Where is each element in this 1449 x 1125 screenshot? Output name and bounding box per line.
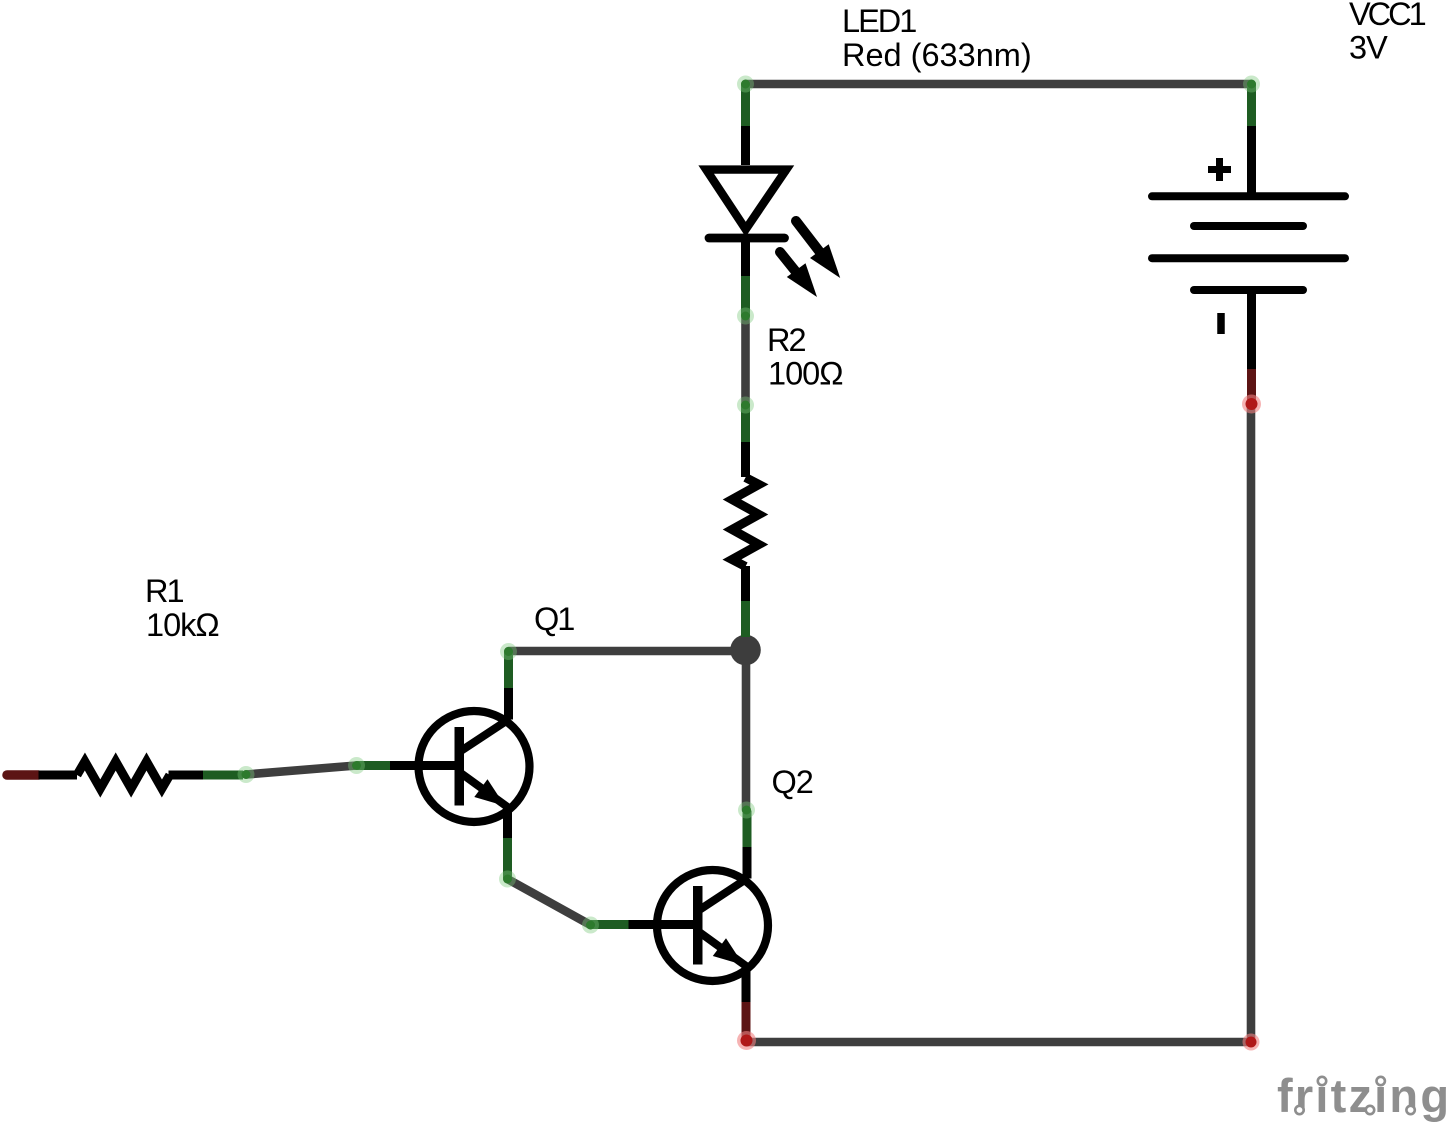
Q2 collector pin — [743, 811, 752, 848]
VCC1 plate 4 short — [1194, 286, 1303, 294]
R1 right pin — [203, 771, 243, 780]
R1 pin glow right — [238, 766, 255, 783]
Q1 base lead — [390, 761, 459, 770]
VCC1 plate 1 long — [1152, 192, 1345, 200]
LED1 light arrow 2 — [780, 252, 803, 280]
VCC1 minus sign (rotated bar) — [1217, 313, 1225, 334]
battery VCC1 — [1152, 76, 1345, 414]
R1 left pin (unconnected, red) — [7, 770, 39, 780]
VCC1 plate 3 long — [1152, 254, 1345, 262]
Q1 emitter lead — [503, 807, 512, 838]
bottom corner red dot — [1243, 1034, 1260, 1051]
label Q1 — [534, 601, 574, 637]
svg-text:Red (633nm): Red (633nm) — [842, 37, 1032, 73]
Q1 circle — [419, 711, 530, 822]
svg-text:R2: R2 — [767, 322, 805, 358]
svg-text:10kΩ: 10kΩ — [146, 607, 219, 643]
label R2 — [767, 322, 843, 392]
Q2 base pin — [591, 920, 629, 929]
Q1 emitter pin — [503, 838, 512, 878]
LED1 pin glow bottom — [737, 308, 754, 325]
Q1 collector pin — [504, 652, 513, 689]
Q2 emitter pin (red) — [742, 1002, 751, 1037]
wire: LED1 cathode to R2 top — [741, 316, 750, 404]
wire: VCC1 minus down to bottom wire — [1247, 406, 1256, 1042]
VCC1 minus red dot — [1242, 395, 1261, 414]
LED1 cathode lead — [741, 238, 750, 276]
svg-text:LED1: LED1 — [842, 3, 916, 39]
R1 zigzag — [77, 762, 170, 789]
VCC1 plus pin glow — [1243, 76, 1260, 93]
R1 left lead — [39, 771, 78, 780]
svg-text:3V: 3V — [1349, 30, 1388, 66]
Q1 base bar — [455, 727, 465, 806]
label Q2 — [772, 764, 813, 800]
LED1 anode lead — [741, 126, 750, 165]
Q1 base pin — [357, 761, 391, 770]
Q2 base lead — [629, 920, 698, 929]
Q2 emitter arrow — [713, 938, 744, 965]
VCC1 plus pin — [1247, 84, 1256, 126]
VCC1 minus lead — [1247, 293, 1256, 369]
R2 zigzag — [732, 478, 759, 567]
Q2 emitter red dot — [737, 1031, 756, 1050]
R2 bottom pin — [741, 601, 750, 637]
wire: R1 right pin to Q1 base — [246, 766, 357, 775]
svg-text:Q1: Q1 — [534, 601, 574, 637]
fritzing watermark — [1277, 1069, 1449, 1122]
R2 pin glow top — [737, 397, 754, 414]
LED1 light arrow 1 — [796, 221, 826, 260]
wire bottom: Q2 emitter to battery minus — [747, 1038, 1252, 1047]
wire: junction to Q2 collector — [742, 650, 751, 810]
Q1 collector pin glow — [500, 643, 517, 660]
wire top: LED1 anode to VCC1 plus — [746, 80, 1252, 89]
svg-text:100Ω: 100Ω — [768, 356, 843, 392]
LED1 triangle — [705, 170, 789, 230]
Q2 collector lead — [743, 847, 752, 879]
wire: Q1 emitter to Q2 base — [508, 879, 591, 925]
svg-text:VCC1: VCC1 — [1349, 0, 1426, 32]
VCC1 plate 2 short — [1194, 222, 1303, 230]
label VCC1 — [1349, 0, 1426, 66]
Q1 collector diagonal — [460, 720, 509, 752]
Q1 base pin glow — [348, 757, 365, 774]
R2 top lead — [741, 442, 750, 477]
Q1 collector lead — [504, 688, 513, 720]
Q2 emitter lead — [742, 966, 751, 1002]
Q1 emitter diagonal — [460, 773, 508, 808]
Q1 emitter arrow — [474, 779, 505, 806]
wire: junction to Q1 collector — [509, 647, 746, 656]
VCC1 minus pin (red) — [1247, 369, 1256, 402]
LED1 bottom pin (cathode) — [741, 276, 750, 316]
LED LED1 — [705, 76, 841, 325]
LED1 pin glow top — [737, 76, 754, 93]
Q2 collector pin glow — [738, 802, 755, 819]
label LED1 — [842, 3, 1032, 73]
LED1 cathode bar — [709, 234, 785, 243]
R2 top pin — [741, 404, 750, 442]
R2 bottom lead — [741, 566, 750, 601]
R1 right lead — [169, 771, 204, 780]
LED1 top pin (anode) — [741, 84, 750, 126]
VCC1 plus sign — [1208, 158, 1231, 181]
Q2 emitter diagonal — [699, 932, 747, 967]
transistor Q1 — [348, 643, 530, 888]
resistor R1 — [7, 762, 255, 789]
Q1 emitter pin glow — [499, 871, 516, 888]
Q2 circle — [657, 870, 768, 981]
Q2 base pin glow — [582, 917, 599, 934]
node junction (R2/Q1/Q2 net) — [730, 635, 761, 666]
Q2 base bar — [693, 886, 703, 965]
svg-text:Q2: Q2 — [772, 764, 813, 800]
label R1 — [145, 573, 219, 643]
transistor Q2 — [582, 802, 768, 1051]
Q2 collector diagonal — [699, 879, 748, 911]
resistor R2 — [732, 397, 759, 638]
VCC1 plus lead — [1247, 126, 1256, 196]
svg-text:R1: R1 — [145, 573, 183, 609]
